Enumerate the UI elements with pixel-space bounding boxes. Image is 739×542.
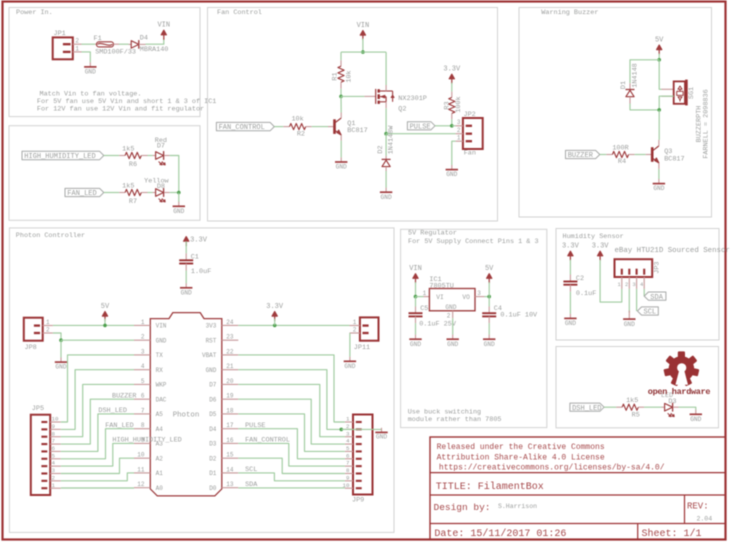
JP3 pin 2 xyxy=(628,277,630,289)
wire D4 to VIN xyxy=(146,39,164,45)
JP5 pin 6 xyxy=(50,450,61,452)
Photon pin 4 (RX) xyxy=(134,369,150,371)
connector JP2 Fan xyxy=(463,118,483,149)
svg-text:GND: GND xyxy=(446,171,457,178)
junction 5V node (reg) xyxy=(487,295,491,299)
title block sheet divider xyxy=(637,524,639,540)
svg-text:JP5: JP5 xyxy=(32,405,44,413)
svg-text:BC817: BC817 xyxy=(347,127,367,135)
wire Photon GND(21) to JP9 pin2 xyxy=(238,370,345,430)
wire 3.3V stub xyxy=(274,319,276,326)
title block frame xyxy=(430,437,726,540)
svg-text:D1: D1 xyxy=(620,81,628,89)
svg-text:5V: 5V xyxy=(485,265,494,273)
JP2 pin 2 xyxy=(456,133,463,135)
svg-text:1: 1 xyxy=(423,290,427,297)
wire junction to JP2 pin3 xyxy=(452,125,456,127)
svg-text:D7: D7 xyxy=(209,382,217,389)
wire F1 to D4 xyxy=(119,43,129,45)
svg-text:BUZZER: BUZZER xyxy=(568,152,594,160)
svg-text:JP11: JP11 xyxy=(354,344,370,352)
JP3 pin 3 xyxy=(636,277,638,289)
net label FAN_LED xyxy=(65,188,104,196)
wire JP2 pin1 to GND xyxy=(452,141,456,165)
svg-text:R3: R3 xyxy=(443,101,451,109)
wire drain node to JP2 pin2 xyxy=(386,133,456,135)
wire R6 to D7 xyxy=(148,155,153,157)
svg-text:8: 8 xyxy=(52,430,56,437)
svg-text:module rather than 7805: module rather than 7805 xyxy=(408,416,502,424)
svg-text:16: 16 xyxy=(226,437,234,444)
svg-text:HIGH_HUMIDITY_LED: HIGH_HUMIDITY_LED xyxy=(24,153,95,161)
ground (JP2) xyxy=(451,165,453,170)
svg-text:2: 2 xyxy=(353,326,357,333)
section box: Open Hardware xyxy=(556,347,719,428)
wire BUZZER to R4 xyxy=(600,154,607,156)
capacitor C1 xyxy=(185,253,187,260)
power 5V (Regulator) xyxy=(488,276,490,284)
svg-text:3.3V: 3.3V xyxy=(592,243,610,251)
svg-text:3.3V: 3.3V xyxy=(443,66,461,74)
wire GND node down xyxy=(60,340,62,357)
wire JP8 pin2 to GND node xyxy=(53,333,61,340)
svg-text:FAN_LED: FAN_LED xyxy=(67,190,96,198)
wire JP3 pin3 to SCL xyxy=(636,289,638,311)
svg-text:R1: R1 xyxy=(332,72,340,80)
svg-text:DAC: DAC xyxy=(156,396,167,403)
IC1 GND pin xyxy=(452,311,454,318)
svg-text:4: 4 xyxy=(346,438,350,445)
svg-text:Fan: Fan xyxy=(464,149,476,157)
svg-text:100R: 100R xyxy=(612,145,628,153)
wire VIN rail xyxy=(341,51,386,53)
resistor R4 xyxy=(606,154,612,156)
wire C2 to GND xyxy=(569,292,571,314)
wire JP8 pin1 to Photon VIN xyxy=(53,324,134,326)
svg-text:1k5: 1k5 xyxy=(626,397,638,405)
ground (C5) xyxy=(415,335,417,340)
svg-text:VO: VO xyxy=(462,294,470,301)
JP9 pin 1 xyxy=(345,421,353,423)
svg-text:2: 2 xyxy=(46,326,50,333)
net label SDA (global) xyxy=(644,292,666,300)
wire JP5 pin6 to Photon A5 xyxy=(61,414,134,452)
svg-text:7: 7 xyxy=(52,438,56,445)
svg-text:A2: A2 xyxy=(156,455,164,462)
svg-text:FAN_LED: FAN_LED xyxy=(105,422,134,430)
svg-text:S.Harrison: S.Harrison xyxy=(498,503,537,510)
wire JP5 pin3 to Photon A2 xyxy=(61,458,134,473)
Photon pin 16 (D3) xyxy=(222,442,239,444)
resistor R2 xyxy=(283,126,289,128)
svg-text:1: 1 xyxy=(346,416,350,423)
svg-text:SG1: SG1 xyxy=(688,87,696,99)
wire 3.3V to JP3 pin1 xyxy=(600,260,622,302)
svg-text:1: 1 xyxy=(46,319,50,326)
transistor Q2 NX2301P xyxy=(364,95,375,97)
resistor R5 xyxy=(616,406,622,408)
JP9 pin 4 xyxy=(345,443,353,445)
svg-text:R7: R7 xyxy=(129,198,137,206)
wire rail to R1 xyxy=(340,52,342,60)
svg-text:HIGH_HUMIDITY_LED: HIGH_HUMIDITY_LED xyxy=(112,437,181,445)
connector JP5 xyxy=(31,415,50,495)
svg-text:For 12V fan use 12V Vin and fi: For 12V fan use 12V Vin and fit regulato… xyxy=(37,106,204,114)
svg-text:DSH_LED: DSH_LED xyxy=(572,405,601,413)
JP5 pin 3 xyxy=(50,472,61,474)
svg-text:9: 9 xyxy=(52,423,56,430)
JP9 pin 5 xyxy=(345,450,353,452)
power 3.3V (Photon) xyxy=(274,314,276,322)
Photon pin 6 (DAC) xyxy=(134,398,150,400)
svg-text:FAN_CONTROL: FAN_CONTROL xyxy=(245,437,290,445)
svg-text:BC817: BC817 xyxy=(664,155,684,163)
svg-text:Attribution Share-Alike 4.0 Li: Attribution Share-Alike 4.0 License xyxy=(437,453,605,462)
wire D1 to bottom node xyxy=(630,104,659,110)
net label FAN_CONTROL (global) xyxy=(216,122,274,130)
Photon pin 19 (D6) xyxy=(222,398,239,400)
wire Q1 collector up xyxy=(340,96,342,112)
svg-text:13: 13 xyxy=(226,481,234,488)
wire 3.3V to C1 xyxy=(185,241,187,253)
svg-text:1: 1 xyxy=(141,319,145,326)
svg-text:SDA: SDA xyxy=(650,294,663,302)
ground (C2) xyxy=(569,314,571,319)
svg-text:18: 18 xyxy=(226,407,234,414)
svg-text:RST: RST xyxy=(206,337,217,344)
svg-text:GND: GND xyxy=(85,69,96,76)
svg-text:8: 8 xyxy=(141,422,145,429)
JP5 pin 8 xyxy=(50,436,61,438)
svg-text:VIN: VIN xyxy=(409,265,422,273)
svg-text:3: 3 xyxy=(632,281,635,288)
svg-text:2: 2 xyxy=(75,38,79,45)
svg-text:A5: A5 xyxy=(156,411,164,418)
JP8 pin 1 xyxy=(43,325,53,327)
section box: Photon Controller xyxy=(9,228,394,533)
diode D2 flyback xyxy=(385,156,387,160)
wire JP5 pin4 to Photon A3 xyxy=(61,443,134,466)
power 3.3V (C2) xyxy=(569,253,571,261)
title block divider 3 xyxy=(430,523,726,525)
open hardware logo gear xyxy=(663,351,699,386)
wire FAN_LED to R7 xyxy=(104,192,119,194)
wire Photon VBAT to JP9 pin1 xyxy=(238,355,345,422)
svg-text:100k: 100k xyxy=(455,96,463,112)
ground (D2) xyxy=(385,188,387,193)
Photon pin 1 (VIN) xyxy=(134,324,150,326)
wire 3.3V to C2 xyxy=(569,260,571,275)
wire Photon D0 to JP9 pin10 xyxy=(238,487,345,489)
section box: Humidity Sensor xyxy=(556,229,719,341)
svg-text:3: 3 xyxy=(477,290,481,297)
svg-text:3: 3 xyxy=(346,430,350,437)
svg-text:5: 5 xyxy=(346,445,350,452)
svg-text:0.1uF 10V: 0.1uF 10V xyxy=(500,312,538,320)
svg-text:GND: GND xyxy=(206,367,217,374)
ground (IC1) xyxy=(452,335,454,340)
svg-text:2: 2 xyxy=(52,474,56,481)
svg-text:D7: D7 xyxy=(157,143,165,151)
svg-text:5: 5 xyxy=(52,452,56,459)
svg-text:open hardware: open hardware xyxy=(648,387,711,397)
svg-text:C1: C1 xyxy=(191,253,199,261)
svg-text:1: 1 xyxy=(457,134,461,141)
LED D3 xyxy=(662,406,665,408)
ground (Power In) xyxy=(89,62,91,67)
svg-text:D2: D2 xyxy=(377,145,385,153)
svg-text:5V: 5V xyxy=(655,37,664,45)
wire JP5 pin5 to Photon A4 xyxy=(61,429,134,459)
ground (JP8) xyxy=(60,358,62,363)
wire Q2 source to rail xyxy=(385,52,387,85)
svg-text:For 5V Supply Connect Pins 1 &: For 5V Supply Connect Pins 1 & 3 xyxy=(408,238,539,246)
svg-text:C2: C2 xyxy=(576,275,584,283)
connector JP8 xyxy=(24,318,43,341)
wire Photon D2 to JP9 pin8 xyxy=(238,458,345,473)
resistor R6 xyxy=(119,155,125,157)
wire node to IC1 VI xyxy=(416,296,424,298)
section box: Power In xyxy=(9,8,200,117)
svg-text:MBRA140: MBRA140 xyxy=(140,46,169,54)
svg-text:22: 22 xyxy=(226,348,234,355)
svg-text:1k5: 1k5 xyxy=(122,183,134,191)
wire R2 to Q1 base xyxy=(312,126,328,128)
svg-text:24: 24 xyxy=(226,319,234,326)
ground (JP9) xyxy=(381,428,383,433)
svg-text:PULSE: PULSE xyxy=(410,123,431,131)
fuse F1 xyxy=(95,43,96,45)
svg-text:GND: GND xyxy=(484,341,495,348)
connector JP9 xyxy=(353,415,373,495)
svg-text:15: 15 xyxy=(226,452,234,459)
svg-text:14: 14 xyxy=(226,466,234,473)
svg-text:GND: GND xyxy=(336,164,347,171)
svg-text:VIN: VIN xyxy=(157,22,170,30)
svg-text:JP3: JP3 xyxy=(654,261,662,273)
LED D7 Red xyxy=(153,155,156,157)
section box: LED indicators xyxy=(9,126,200,221)
ground (C1) xyxy=(185,283,187,288)
Photon pin 10 (A2) xyxy=(134,457,150,459)
wire PULSE to junction xyxy=(435,125,452,127)
JP5 pin 10 xyxy=(50,421,61,423)
wire IC1 GND to ground xyxy=(452,318,454,335)
svg-text:Warning Buzzer: Warning Buzzer xyxy=(541,9,598,17)
wire Photon D1 to JP9 pin9 xyxy=(238,473,345,481)
svg-text:Power In.: Power In. xyxy=(16,9,53,17)
wire R3 to junction xyxy=(451,119,453,126)
svg-text:R5: R5 xyxy=(632,412,640,420)
wire R7 to D8 xyxy=(148,192,153,194)
wire 5V node to buzzer top pin xyxy=(659,60,661,90)
wire DSH_LED to R5 xyxy=(604,406,616,408)
svg-text:BUZZER: BUZZER xyxy=(112,392,136,400)
Photon pin 24 (3V3) xyxy=(222,324,239,326)
Photon pin 23 (RST) xyxy=(222,339,239,341)
svg-text:GND: GND xyxy=(156,337,167,344)
wire 3.3V to R3 xyxy=(451,83,453,92)
JP2 pin 3 xyxy=(456,125,463,127)
svg-text:0.1uF 25V: 0.1uF 25V xyxy=(419,320,457,328)
wire Q2 drain down xyxy=(385,108,387,133)
diode D1 flyback xyxy=(629,83,631,89)
transistor Q3 BC817 xyxy=(646,154,651,156)
resistor R7 xyxy=(119,192,125,194)
svg-text:DSH_LED: DSH_LED xyxy=(98,407,127,415)
svg-text:23: 23 xyxy=(226,334,234,341)
junction VIN node (reg) xyxy=(414,295,418,299)
svg-text:D8: D8 xyxy=(157,183,165,191)
svg-text:VBAT: VBAT xyxy=(202,352,217,359)
svg-text:3: 3 xyxy=(52,467,56,474)
LED D8 Yellow xyxy=(153,192,156,194)
ground (Q1) xyxy=(340,157,342,162)
svg-text:2.04: 2.04 xyxy=(697,516,713,523)
net label PULSE (global) xyxy=(407,122,435,130)
svg-text:2: 2 xyxy=(625,281,628,288)
svg-text:GND: GND xyxy=(376,434,387,441)
JP9 pin 3 xyxy=(345,436,353,438)
wire HIGH_HUMIDITY_LED to R6 xyxy=(104,155,119,157)
ground (Q3) xyxy=(658,179,660,184)
connector JP3 xyxy=(615,259,653,277)
buzzer SG1 xyxy=(662,88,674,90)
wire D7 to junction xyxy=(170,156,179,193)
svg-text:GND: GND xyxy=(410,341,421,348)
Photon pin 17 (D4) xyxy=(222,428,239,430)
junction VIN rail xyxy=(361,50,365,54)
JP9 pin 6 xyxy=(345,458,353,460)
Photon pin 15 (D2) xyxy=(222,457,239,459)
Photon pin 20 (D7) xyxy=(222,383,239,385)
wire VIN down to node xyxy=(415,282,417,296)
wire IC1 VO to 5V node xyxy=(485,296,490,298)
wire Photon D7 to JP9 pin3 xyxy=(238,384,345,436)
JP11 pin 2 xyxy=(350,332,360,334)
wire FAN_CONTROL to R2 xyxy=(274,126,283,128)
net label DSH_LED (global) xyxy=(570,403,604,411)
Photon pin 3 (TX) xyxy=(134,354,150,356)
svg-text:GND: GND xyxy=(55,364,66,371)
svg-text:2: 2 xyxy=(141,334,145,341)
wire Photon D4 to JP9 pin6 xyxy=(238,429,345,459)
wire 5V down to node xyxy=(488,282,490,296)
power VIN (Regulator) xyxy=(415,276,417,284)
wire D3 to GND xyxy=(679,407,696,410)
svg-text:17: 17 xyxy=(226,422,234,429)
wire JP5 pin1 to Photon A0 xyxy=(61,487,134,489)
wire 5V node to D1 xyxy=(630,60,659,84)
JP8 pin 2 xyxy=(43,332,53,334)
wire JP5 pin2 to Photon A1 xyxy=(61,473,134,481)
svg-text:1N4148W: 1N4148W xyxy=(388,125,396,154)
ground (D3) xyxy=(695,410,697,415)
power VIN (Fan Control) xyxy=(362,33,364,41)
wire JP5 pin9 to Photon RX xyxy=(61,370,134,430)
Photon pin 14 (D1) xyxy=(222,472,239,474)
power VIN (Power In) xyxy=(163,32,165,40)
svg-text:10: 10 xyxy=(137,452,145,459)
wire R4 to Q3 base xyxy=(635,154,646,156)
svg-text:D5: D5 xyxy=(209,411,217,418)
svg-text:D3: D3 xyxy=(209,441,217,448)
svg-text:5V Regulator: 5V Regulator xyxy=(408,230,457,238)
svg-text:10: 10 xyxy=(52,416,59,423)
svg-text:1: 1 xyxy=(353,319,357,326)
svg-text:8: 8 xyxy=(346,467,350,474)
wire Photon D6 to JP9 pin4 xyxy=(238,399,345,444)
svg-text:Released under the Creative Co: Released under the Creative Commons xyxy=(437,443,605,452)
Photon pin 9 (A3) xyxy=(134,442,150,444)
diode D4 xyxy=(129,43,132,45)
IC Photon module body xyxy=(150,313,222,496)
svg-text:eBay HTU21D Sourced Sensor: eBay HTU21D Sourced Sensor xyxy=(615,247,730,255)
svg-text:3.3V: 3.3V xyxy=(266,303,284,311)
svg-text:2: 2 xyxy=(457,127,461,134)
svg-text:0.1uF: 0.1uF xyxy=(576,290,596,298)
svg-text:4: 4 xyxy=(141,363,145,370)
svg-text:Humidity Sensor: Humidity Sensor xyxy=(563,233,624,241)
net label SCL (global) xyxy=(637,307,658,315)
junction 3.3V node xyxy=(273,324,277,328)
wire R5 to D3 xyxy=(644,406,661,408)
junction Q2 drain node xyxy=(384,132,388,136)
wire node to Q3 collector xyxy=(658,110,660,140)
wire pin2 node to GND (right) xyxy=(341,429,381,430)
svg-text:7: 7 xyxy=(346,460,350,467)
wire Photon D5 to JP9 pin5 xyxy=(238,414,345,452)
svg-text:9: 9 xyxy=(346,474,350,481)
wire D8 to junction xyxy=(170,192,179,194)
svg-text:Photon: Photon xyxy=(173,411,200,419)
wire JP5 pin8 to Photon WKP xyxy=(61,384,134,436)
svg-text:10k: 10k xyxy=(346,70,354,82)
wire VIN down xyxy=(362,39,364,53)
wire Photon 3V3 to JP11 pin1 xyxy=(238,324,349,326)
svg-text:D3: D3 xyxy=(668,398,676,406)
svg-text:3.3V: 3.3V xyxy=(562,243,580,251)
svg-text:RX: RX xyxy=(156,367,164,374)
wire GND node to Photon GND xyxy=(61,339,134,341)
JP3 pin 4 xyxy=(643,277,645,289)
net label BUZZER (global) xyxy=(566,150,600,158)
Photon pin 11 (A1) xyxy=(134,472,150,474)
Photon pin 8 (A4) xyxy=(134,428,150,430)
wire junction to Q2 gate xyxy=(341,95,364,97)
capacitor C5 xyxy=(415,297,417,307)
svg-text:Q2: Q2 xyxy=(398,105,406,113)
svg-text:R2: R2 xyxy=(297,130,305,138)
ground (LED box) xyxy=(178,202,180,207)
JP5 pin 1 xyxy=(50,487,61,489)
svg-text:FARNELL = 2098836: FARNELL = 2098836 xyxy=(703,89,711,158)
svg-text:Date: 15/11/2017 01:26: Date: 15/11/2017 01:26 xyxy=(434,528,566,540)
svg-text:7805TU: 7805TU xyxy=(429,283,453,291)
wire buzzer bottom pin to node xyxy=(659,96,674,110)
power 3.3V (C1) xyxy=(185,239,187,247)
JP1 pin 2 xyxy=(73,43,82,45)
wire JP5 pin10 to Photon TX xyxy=(61,355,134,422)
svg-text:2: 2 xyxy=(447,312,451,319)
wire Q3 emitter to GND xyxy=(658,169,660,179)
JP3 pin 1 xyxy=(621,277,623,289)
IC1 7805TU xyxy=(424,296,430,298)
svg-text:A0: A0 xyxy=(156,485,164,492)
wire 5V stub xyxy=(104,319,106,326)
svg-text:SDA: SDA xyxy=(245,481,258,489)
JP9 pin 8 xyxy=(345,472,353,474)
